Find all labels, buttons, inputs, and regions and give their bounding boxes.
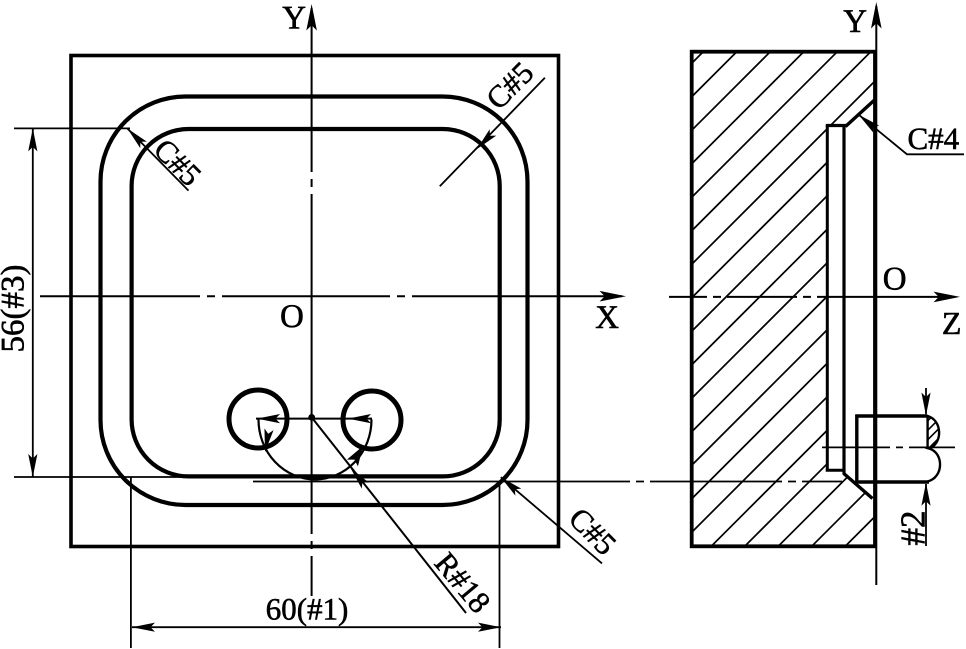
cutter/stud: wavy break line (928, 416, 941, 482)
dimension 56(#3): lower arrow (28, 454, 37, 477)
dimension 56(#3): dimension line (32, 128, 34, 477)
X axis arrow (600, 291, 626, 302)
dimension #2 value text (901, 512, 924, 545)
dimension 56(#3): upper arrow (28, 128, 37, 151)
cutter/stud: bottom edge (855, 480, 929, 483)
dimension 56(#3) value text (1, 266, 31, 351)
cutter/stud: hatched break lens (900, 360, 960, 487)
dimension 60(#1): left arrow (132, 623, 155, 632)
section hatching of right view body (660, 0, 966, 649)
dimension #2: lower line (925, 484, 927, 546)
radius R#18 mid arrow (347, 465, 369, 489)
X axis label (596, 306, 619, 328)
dimension #2: lower arrow (921, 483, 930, 506)
chamfer label C#5 top-right text (485, 61, 534, 110)
cutter/stud: break lens chord (926, 415, 928, 449)
chamfer label C#5 top-left: arrow (124, 125, 147, 148)
dimension 60(#1) value text (267, 598, 347, 626)
right view: bottom chamfer line (844, 474, 873, 499)
chamfer label C#5 bottom-right: arrow (498, 474, 521, 496)
origin label O (right view) (884, 268, 905, 290)
chamfer label C#4: arrow (856, 111, 880, 133)
chamfer label C#5 bottom-right text (568, 507, 617, 556)
radius R#18 leader line (312, 417, 466, 613)
Y axis line (right view) (875, 6, 877, 585)
start point dot (308, 414, 315, 421)
left view: outer rounded contour (tool-centre path) (101, 97, 528, 506)
cutter/stud: top edge (855, 414, 927, 417)
Z axis label (943, 313, 959, 334)
chamfer label C#4 text (909, 129, 959, 150)
chamfer label C#5 top-left text (153, 138, 202, 187)
dimension 56(#3): bottom extension line (14, 476, 182, 478)
left view: outer square (blank outline) (71, 56, 559, 547)
right view: top chamfer C#4 line (846, 100, 875, 127)
Y axis label (left view) (283, 7, 306, 29)
Z axis centre line (669, 296, 944, 298)
dimension 60(#1): right extension line (499, 481, 501, 648)
right view: pocket inner edge line (842, 125, 845, 475)
cutter/stud: left end face (855, 415, 858, 484)
tool circle left (229, 390, 287, 448)
Y axis arrow (right view) (871, 2, 882, 28)
origin label O (left view) (281, 305, 302, 327)
Y axis label (right view) (844, 10, 867, 32)
chamfer label C#5 top-right: arrow (474, 129, 497, 152)
radius R#18 text (433, 551, 491, 614)
arc direction arrow (lower left) (260, 429, 273, 453)
right view: pocket bottom face line (826, 125, 829, 472)
right view: pocket bottom wall line (826, 469, 844, 472)
lower semicircular tool path arc (259, 420, 372, 480)
right view: pocket top wall line (826, 124, 847, 127)
path line between circle centres (256, 418, 372, 420)
chamfer label C#5 top-right: leader line (440, 78, 545, 187)
dimension #2: upper arrow (921, 393, 930, 416)
tool circle right (343, 391, 401, 449)
arc direction arrow (upper right, large) (347, 446, 363, 466)
Y axis arrow (left view) (306, 4, 317, 30)
X axis centre line (40, 295, 622, 297)
dimension 56(#3): top extension line (14, 127, 130, 129)
chamfer label C#5 bottom-right: leader line (501, 477, 602, 563)
path arrow at left circle centre (257, 414, 280, 423)
chamfer label C#5 top-left: leader line (127, 129, 188, 191)
Y axis centre line (left view) (311, 8, 313, 596)
dimension #2: upper line (925, 388, 927, 414)
chamfer label C#4: leader line (859, 115, 965, 155)
cutter/stud axis centre line (822, 446, 955, 448)
dimension 60(#1): dimension line (132, 626, 501, 628)
Z axis arrow (934, 292, 960, 303)
dimension 60(#1): left extension line (130, 477, 132, 648)
left view: inner rounded pocket contour (132, 129, 500, 476)
right view: body outline rectangle (692, 52, 875, 547)
projection centre line at pocket bottom level (253, 481, 843, 483)
dimension 60(#1): right arrow (478, 623, 501, 632)
path arrow entering right circle (348, 414, 371, 423)
